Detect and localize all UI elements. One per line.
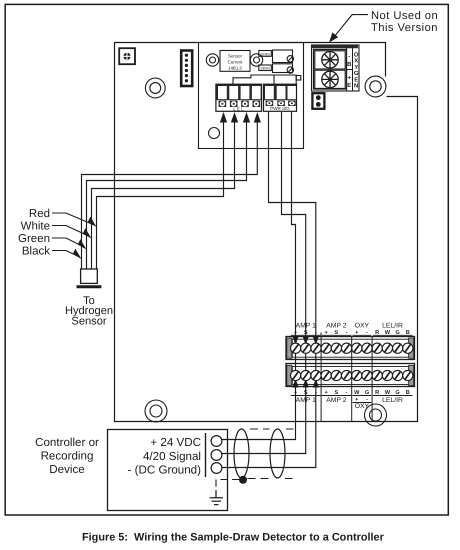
svg-text:LEL/IR: LEL/IR	[382, 323, 403, 330]
svg-text:Green: Green	[18, 233, 50, 245]
svg-text:O: O	[354, 52, 359, 59]
wire black: LEL terminal to hydrogen sensor	[97, 115, 224, 269]
pot label box 2	[259, 65, 272, 71]
svg-text:AMP 2: AMP 2	[326, 323, 346, 330]
mounting hole bottom-left	[145, 400, 167, 422]
connector J2 (SIP header)	[181, 51, 192, 87]
mounting hole bottom-right	[365, 404, 387, 426]
screw left of sensor-current box	[206, 54, 218, 66]
svg-text:- (DC Ground): - (DC Ground)	[128, 464, 202, 477]
svg-text:+: +	[348, 76, 352, 82]
jumper block below oxygen connector	[312, 93, 324, 109]
shield drain dashed line to ground	[216, 480, 239, 491]
wire: PWR + terminal to AMP1 - / DC ground of controller	[222, 112, 316, 468]
svg-text:Y: Y	[354, 64, 358, 71]
sensor current label box	[220, 51, 250, 72]
oxygen connector vertical labels	[347, 52, 359, 90]
wire red: LEL terminal to hydrogen sensor	[82, 115, 258, 269]
wire white: LEL terminal to hydrogen sensor	[87, 115, 247, 269]
potentiometer 2	[273, 64, 294, 73]
wire: PWR S terminal to AMP1 S / 4-20 signal of controller	[222, 112, 306, 454]
labels above upper strip	[296, 323, 403, 330]
screw right of sensor-current box	[250, 54, 262, 66]
svg-text:Sensor: Sensor	[228, 54, 242, 59]
svg-text:B: B	[347, 61, 352, 68]
mounting hole top-right	[365, 76, 386, 97]
underline marks for strip labels	[291, 335, 413, 402]
terminal block TB1 left group (LEL, 4 positions)	[216, 84, 262, 111]
svg-text:Recording: Recording	[41, 450, 94, 463]
svg-text:OXY: OXY	[355, 403, 370, 410]
svg-text:4/20 Signal: 4/20 Signal	[143, 450, 201, 463]
arrows up into lower strip AMP1	[292, 379, 319, 388]
svg-text:Black: Black	[22, 246, 50, 258]
group divider lines in strips	[321, 333, 372, 422]
terminal block assembly outline	[199, 43, 304, 149]
svg-text:PWR SIG: PWR SIG	[270, 106, 290, 111]
svg-text:-: -	[348, 54, 350, 60]
svg-text:ZERO: ZERO	[260, 52, 270, 56]
svg-text:White: White	[21, 221, 50, 233]
potentiometer 1	[273, 50, 294, 63]
svg-text:SPAN: SPAN	[260, 67, 270, 71]
svg-text:LEL/IR: LEL/IR	[382, 397, 403, 404]
cable shield left arc	[234, 429, 249, 478]
cable shield dashed top	[250, 428, 294, 430]
svg-text:This Version: This Version	[371, 22, 438, 34]
ground symbol	[210, 490, 224, 505]
controller box	[108, 430, 228, 511]
arrows down into upper strip AMP1	[292, 336, 319, 345]
svg-text:AMP 2: AMP 2	[326, 397, 346, 404]
small circle on assembly bottom-left	[209, 128, 220, 139]
sensor connector body	[81, 269, 98, 283]
svg-text:E: E	[354, 76, 358, 83]
svg-text:Device: Device	[49, 463, 84, 476]
PCB outline	[115, 43, 418, 422]
svg-text:Not Used on: Not Used on	[371, 10, 438, 22]
svg-text:AMP 1: AMP 1	[296, 397, 316, 404]
shield drain junction dot	[239, 476, 247, 484]
terminal block TB1 right group (3 positions)	[264, 84, 297, 111]
svg-text:X: X	[354, 58, 358, 65]
mounting screw square top-left	[119, 48, 135, 64]
leader line: white wire	[52, 226, 89, 237]
svg-text:Current: Current	[228, 60, 243, 65]
svg-text:AMP 1: AMP 1	[296, 323, 316, 330]
arrows up into LEL terminals	[220, 112, 261, 123]
svg-text:14B1.5: 14B1.5	[228, 66, 242, 71]
svg-text:N: N	[354, 83, 358, 90]
controller terminal circles	[211, 436, 222, 474]
svg-text:E: E	[347, 82, 351, 89]
wire: PWR - terminal to AMP1 + / +24VDC of controller	[222, 112, 296, 440]
sensor connector flange	[77, 285, 102, 288]
wire green: LEL terminal to hydrogen sensor	[92, 115, 235, 269]
leader line: green wire	[52, 238, 84, 247]
svg-text:OXY: OXY	[355, 323, 370, 330]
labels below lower strip row2	[296, 397, 403, 410]
relay box above terminal strip	[233, 75, 301, 84]
leader line: black wire	[52, 251, 79, 257]
svg-text:Controller or: Controller or	[35, 436, 99, 449]
svg-text:L E L: L E L	[233, 107, 244, 112]
bottom terminal strip upper row	[286, 337, 415, 360]
controller terminal bar	[205, 433, 207, 477]
leader line: not used on this version	[335, 15, 369, 37]
svg-text:G: G	[354, 70, 359, 77]
svg-text:+ 24 VDC: + 24 VDC	[150, 436, 201, 449]
terminal screws upper strip	[291, 343, 413, 381]
mounting hole top-left	[145, 78, 165, 98]
svg-text:Red: Red	[29, 208, 50, 220]
bottom terminal strip lower row	[286, 364, 415, 387]
cable shield dashed bottom	[248, 478, 293, 480]
cable shield right arc	[270, 429, 285, 478]
pot label box 1	[259, 51, 272, 57]
svg-text:Sensor: Sensor	[71, 316, 106, 328]
oxygen connector TB2 (not used)	[312, 45, 360, 91]
leader line: red wire	[52, 213, 93, 225]
labels below lower strip row1	[294, 390, 410, 403]
svg-text:Figure 5: Wiring the Sample-D: Figure 5: Wiring the Sample-Draw Detecto…	[82, 532, 385, 544]
